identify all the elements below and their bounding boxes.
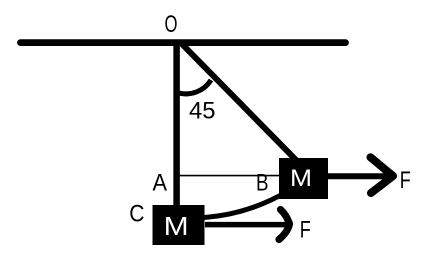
svg-text:45: 45 (189, 98, 216, 125)
svg-text:F: F (300, 216, 311, 243)
svg-text:M: M (290, 165, 312, 192)
svg-text:M: M (164, 211, 189, 241)
svg-text:C: C (129, 200, 144, 227)
svg-text:F: F (400, 167, 411, 194)
svg-text:O: O (165, 11, 178, 38)
svg-text:B: B (256, 169, 269, 196)
svg-text:A: A (153, 169, 168, 196)
